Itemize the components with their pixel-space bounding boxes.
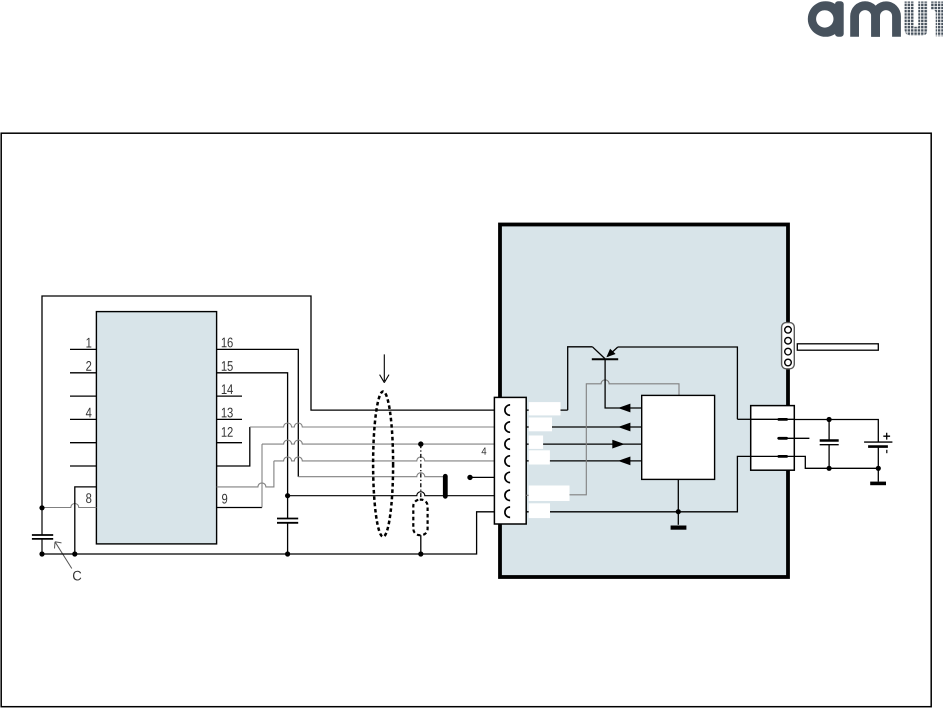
figure frame xyxy=(1,133,931,707)
ams logo halftone letter u xyxy=(905,2,928,36)
wire: contact2 to U2 pin2 xyxy=(526,426,642,428)
wire: U1 unlabeled pin to contact 2 xyxy=(217,427,250,466)
transistor Q1 base bar xyxy=(592,358,618,360)
pin 6 stub U1 xyxy=(70,465,96,467)
shield drain dash-dot wire xyxy=(420,444,422,500)
label box net1 xyxy=(529,402,561,415)
node: pin8 net xyxy=(39,505,44,510)
J3 pin 3 xyxy=(785,348,792,355)
J2 pin1 contact bar xyxy=(777,418,788,421)
wire: pin15 to contact 6 and cap C2 xyxy=(217,373,288,496)
J1 contact 5 xyxy=(505,472,510,482)
pin 5 stub U1 xyxy=(70,442,96,444)
wire: outer loop top (pin8 net to connector contact 1) xyxy=(42,296,506,508)
wire: J2 pin1 to battery top rail xyxy=(794,420,878,443)
J1 contact 2 xyxy=(505,422,510,432)
label 4 (wire count) xyxy=(482,448,487,455)
shield drain node on contact3 wire xyxy=(418,441,423,446)
pin label 13 xyxy=(222,408,233,418)
pin 4 stub U1 xyxy=(70,418,96,420)
wire: contact6 stub xyxy=(526,494,540,496)
label C (capacitor) xyxy=(73,571,81,581)
pin 14 stub U1 xyxy=(217,395,242,397)
label box net2 xyxy=(529,418,552,432)
pin label 1 xyxy=(86,338,91,348)
battery bottom rail xyxy=(829,467,878,469)
wire: contact3 to U2 pin3 xyxy=(526,443,642,445)
node: pin15/C2 junction xyxy=(285,493,290,498)
wire: contact7 ground net inside board xyxy=(526,456,751,511)
pin label 4 xyxy=(86,408,92,418)
J2 pin2 stub xyxy=(777,437,809,439)
ground symbol (board) xyxy=(671,526,687,530)
node: battery bottom xyxy=(876,466,881,471)
J3 pin 2 xyxy=(785,337,792,344)
pin label 14 xyxy=(222,384,233,394)
arrow U2 pin4 xyxy=(618,457,630,466)
arrow U2 pin1 xyxy=(618,404,630,413)
battery BT1 xyxy=(864,441,892,443)
wire: U1 row to ground rail xyxy=(75,487,97,554)
gray net: label to U2 top xyxy=(570,380,680,495)
connector J1 body xyxy=(494,397,526,524)
pin 12 stub U1 xyxy=(217,442,242,444)
pin 2 stub U1 xyxy=(70,372,96,374)
J2 pin3 contact bar xyxy=(777,455,788,458)
J1 contact 3 xyxy=(505,439,510,449)
ground rail (bottom) xyxy=(42,512,506,554)
cable arrow xyxy=(380,354,389,382)
ams logo halftone letter n (clipped) xyxy=(931,2,943,37)
wire: U1 right row to contact 4 xyxy=(217,461,274,487)
wire: Q1 base to U2 pin xyxy=(605,359,642,408)
IC U1 (left, 16-pin) xyxy=(96,312,216,544)
node: ground junction xyxy=(676,509,681,514)
shield dashed body xyxy=(413,500,427,536)
label box net7 xyxy=(529,503,550,518)
wire: U2 ground pin xyxy=(677,479,679,524)
cable bundle dashed ellipse xyxy=(373,392,393,537)
label bar (long rectangle) xyxy=(797,344,878,350)
node: shield to rail xyxy=(418,551,423,556)
node: C3 top xyxy=(827,417,832,422)
ground symbol (battery) xyxy=(877,468,879,481)
capacitor C1 xyxy=(41,508,43,535)
wire: pin8 to C1 node xyxy=(42,504,96,508)
label box net4 xyxy=(529,450,550,464)
wire: contact1 into board xyxy=(526,409,568,411)
U2 (right IC) xyxy=(642,395,715,479)
node: C1 to rail xyxy=(39,551,44,556)
label box net3 xyxy=(529,436,543,449)
pin label 9 xyxy=(222,494,227,504)
wire: contact4 to U2 pin4 xyxy=(526,460,642,462)
J1 contact 6 xyxy=(505,490,510,500)
J3 circle pins xyxy=(785,327,792,366)
pin label 12 xyxy=(222,427,233,437)
J3 pin 4 xyxy=(785,359,792,366)
pin label 16 xyxy=(222,338,233,348)
node: C2 to rail xyxy=(285,551,290,556)
J1 contact 7 xyxy=(505,507,510,517)
node: C3 bottom xyxy=(827,466,832,471)
stub with node to contact 5 xyxy=(467,475,472,480)
ams logo letter m xyxy=(850,1,901,36)
J2 pin1 wire through xyxy=(751,418,795,420)
pin 1 stub U1 xyxy=(70,348,96,350)
ams logo letter a xyxy=(808,1,844,37)
regulator input wire into terminal block xyxy=(737,418,750,420)
terminal block J2 body xyxy=(751,406,795,471)
wire: pin16 to contact 5 xyxy=(217,349,299,476)
capacitor C3 xyxy=(828,420,830,440)
J2 pin2 contact bar xyxy=(777,437,788,440)
pin label 2 xyxy=(86,361,91,371)
shorting bar jumper xyxy=(443,476,448,496)
header J3 (4 circles) body xyxy=(782,323,795,369)
wire: contact1 to transistor collector xyxy=(568,347,593,410)
arrow U2 pin2 xyxy=(618,423,630,432)
arrow U2 pin3 (input) xyxy=(612,440,624,449)
capacitor C2 xyxy=(287,496,289,519)
wire: Q1 emitter to regulator input xyxy=(618,347,738,419)
J1 contact 4 xyxy=(505,456,510,466)
pin 3 stub U1 xyxy=(70,395,96,397)
J3 pin 1 xyxy=(785,327,792,334)
node: row487 to rail xyxy=(72,551,77,556)
pin label 15 xyxy=(222,361,233,371)
annotation arrow to C1 xyxy=(55,542,72,569)
board (module) xyxy=(500,225,788,578)
J1 contact 1 xyxy=(505,405,510,415)
pin 13 stub U1 xyxy=(217,418,242,420)
transistor Q1 emitter diagonal with arrow xyxy=(608,347,618,357)
transistor Q1 collector diagonal xyxy=(592,347,605,359)
wire: pin9 to contact 3 xyxy=(217,507,262,509)
pin label 8 xyxy=(86,493,91,503)
J2 pin3 wire through xyxy=(751,456,829,468)
label box net6 xyxy=(529,486,570,502)
